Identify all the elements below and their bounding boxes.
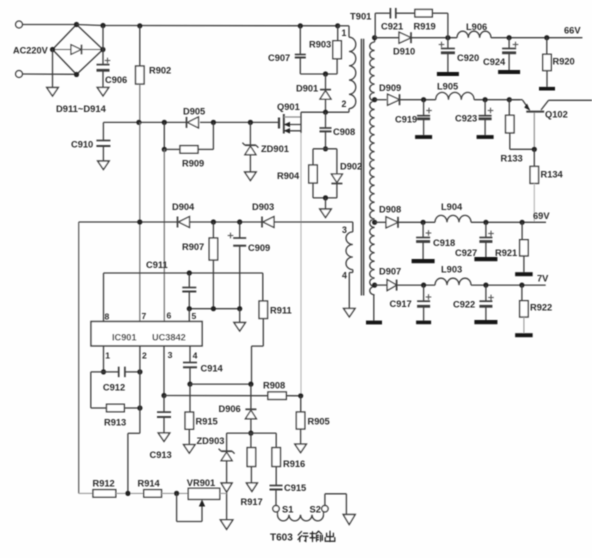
svg-text:R909: R909: [182, 159, 204, 169]
svg-text:R917: R917: [241, 497, 263, 507]
svg-text:R134: R134: [541, 170, 564, 180]
svg-text:D906: D906: [219, 404, 241, 414]
svg-text:ZD903: ZD903: [197, 436, 225, 446]
svg-text:Q102: Q102: [545, 110, 568, 120]
svg-text:7: 7: [142, 311, 147, 321]
svg-text:C924: C924: [483, 57, 506, 67]
svg-text:D910: D910: [393, 47, 415, 57]
svg-text:C918: C918: [433, 238, 455, 248]
svg-text:C911: C911: [146, 260, 168, 270]
svg-text:7V: 7V: [537, 274, 549, 284]
svg-text:S1: S1: [282, 505, 293, 515]
svg-text:5: 5: [192, 311, 197, 321]
svg-text:8: 8: [105, 311, 110, 321]
svg-text:ZD901: ZD901: [261, 144, 289, 154]
svg-text:C920: C920: [457, 53, 479, 63]
svg-text:C917: C917: [390, 299, 412, 309]
svg-text:D909: D909: [379, 83, 401, 93]
svg-text:VR901: VR901: [187, 478, 215, 488]
svg-text:6: 6: [167, 311, 172, 321]
svg-text:66V: 66V: [564, 26, 581, 36]
svg-text:L905: L905: [437, 82, 458, 92]
svg-text:3: 3: [168, 350, 173, 360]
svg-text:C922: C922: [453, 300, 475, 310]
svg-text:D901: D901: [296, 84, 318, 94]
svg-text:R919: R919: [414, 22, 436, 32]
svg-text:4: 4: [193, 350, 198, 360]
svg-text:R913: R913: [104, 418, 126, 428]
svg-text:R908: R908: [263, 381, 285, 391]
svg-text:R920: R920: [553, 57, 575, 67]
svg-text:R915: R915: [196, 417, 218, 427]
svg-text:D905: D905: [183, 107, 205, 117]
svg-text:C927: C927: [455, 248, 477, 258]
svg-text:R903: R903: [309, 40, 331, 50]
svg-text:R904: R904: [277, 171, 300, 181]
svg-text:AC220V: AC220V: [13, 46, 49, 56]
svg-text:2: 2: [342, 99, 347, 109]
svg-text:1: 1: [342, 28, 347, 38]
svg-text:T603: T603: [270, 533, 293, 544]
svg-text:C923: C923: [455, 114, 477, 124]
svg-text:C921: C921: [381, 22, 403, 32]
svg-text:C910: C910: [71, 140, 93, 150]
svg-text:R922: R922: [530, 303, 552, 313]
svg-text:D911~D914: D911~D914: [56, 103, 107, 114]
svg-text:C919: C919: [395, 115, 417, 125]
svg-text:2: 2: [142, 350, 147, 360]
svg-text:1: 1: [105, 350, 110, 360]
svg-text:D904: D904: [172, 202, 195, 212]
svg-text:D902: D902: [340, 162, 362, 172]
svg-text:C906: C906: [105, 75, 127, 85]
svg-text:L903: L903: [441, 265, 462, 275]
svg-text:R907: R907: [182, 242, 204, 252]
svg-text:R911: R911: [270, 306, 292, 316]
svg-text:L904: L904: [441, 202, 463, 212]
svg-text:C912: C912: [103, 383, 125, 393]
svg-text:R912: R912: [93, 479, 115, 489]
svg-text:C915: C915: [284, 483, 306, 493]
svg-text:C913: C913: [150, 450, 172, 460]
svg-text:D908: D908: [379, 205, 401, 215]
svg-text:R902: R902: [149, 66, 171, 76]
svg-text:D903: D903: [252, 202, 274, 212]
svg-text:Q901: Q901: [277, 102, 300, 112]
svg-text:R916: R916: [283, 459, 305, 469]
svg-text:C909: C909: [248, 243, 270, 253]
svg-text:3: 3: [342, 225, 347, 235]
svg-text:T901: T901: [350, 11, 371, 22]
svg-text:C908: C908: [333, 127, 355, 137]
svg-text:C907: C907: [268, 53, 290, 63]
svg-text:D907: D907: [379, 267, 401, 277]
svg-text:L906: L906: [466, 22, 487, 32]
svg-text:UC3842: UC3842: [152, 333, 186, 343]
svg-text:IC901: IC901: [112, 333, 137, 343]
svg-text:69V: 69V: [533, 211, 550, 221]
svg-text:4: 4: [342, 271, 347, 281]
svg-text:C914: C914: [201, 364, 224, 374]
svg-text:R921: R921: [495, 248, 517, 258]
svg-text:R133: R133: [501, 154, 523, 164]
svg-text:R905: R905: [308, 417, 330, 427]
svg-text:S2: S2: [310, 505, 321, 515]
svg-text:R914: R914: [138, 479, 161, 489]
